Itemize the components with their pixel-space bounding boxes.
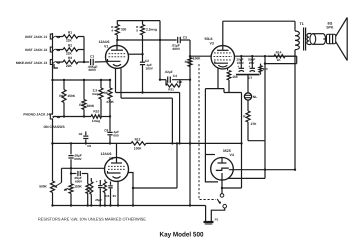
capacitor C4 .02uF xyxy=(165,70,178,83)
svg-text:+: + xyxy=(248,64,250,68)
svg-text:ON CHASSIS: ON CHASSIS xyxy=(44,125,66,129)
svg-text:V4: V4 xyxy=(230,153,234,157)
wire heater drop b xyxy=(171,98,173,144)
capacitor C3 .01uF xyxy=(172,36,191,52)
svg-text:C9: C9 xyxy=(87,144,91,148)
svg-text:INST JACK J1: INST JACK J1 xyxy=(25,35,47,39)
transformer T1 label xyxy=(300,22,304,26)
resistor R3 22K xyxy=(56,56,84,68)
svg-text:R7: R7 xyxy=(79,103,83,107)
svg-text:R12: R12 xyxy=(135,138,141,142)
input jack J4 xyxy=(23,112,65,128)
wire V4 cathode out xyxy=(229,169,296,171)
wire V2 detour xyxy=(133,142,178,188)
svg-text:1meg: 1meg xyxy=(92,119,100,123)
svg-text:R1: R1 xyxy=(68,30,72,34)
wire switch to plug xyxy=(206,206,225,222)
wire B+ top rail xyxy=(223,21,295,30)
tube V3 heater xyxy=(218,65,227,67)
transformer T1 secondary xyxy=(307,34,311,45)
resistor R10 1meg xyxy=(91,110,102,124)
svg-text:SPK: SPK xyxy=(326,26,334,30)
wire V4 box left xyxy=(204,89,206,155)
wire V4 heater out xyxy=(229,177,265,179)
tube V3 grids xyxy=(214,53,233,60)
svg-text:R3: R3 xyxy=(68,56,72,60)
resistor R5 2.2meg xyxy=(136,21,157,55)
capacitor C8 .1uF xyxy=(104,117,119,144)
svg-text:P1: P1 xyxy=(215,217,219,221)
svg-text:R9: R9 xyxy=(185,60,189,64)
switch SW1 xyxy=(217,194,226,208)
resistor R6 150K xyxy=(59,80,76,117)
svg-text:RESISTORS ARE ½W, 10% UNLESS M: RESISTORS ARE ½W, 10% UNLESS MARKED OTHE… xyxy=(38,217,146,222)
tube V2 12AU6 label xyxy=(101,152,114,160)
transformer T1 primary xyxy=(295,30,299,51)
wire vertical plate bus xyxy=(159,21,161,81)
plug P1 xyxy=(204,217,219,224)
svg-text:25µF: 25µF xyxy=(95,198,102,202)
svg-text:2.2meg: 2.2meg xyxy=(146,28,157,32)
svg-text:600V: 600V xyxy=(75,180,83,184)
tube V4 35Z5 label xyxy=(223,149,234,157)
svg-text:C1: C1 xyxy=(90,55,94,59)
wire V4 bottom xyxy=(221,173,242,189)
svg-text:6V: 6V xyxy=(113,194,117,198)
svg-text:600: 600 xyxy=(113,134,118,138)
speaker magnet xyxy=(327,34,336,43)
wire ground rail xyxy=(51,204,205,206)
capacitor C9 .02uF xyxy=(78,132,91,148)
svg-text:R2: R2 xyxy=(68,43,72,47)
resistor 220 screen xyxy=(259,64,268,75)
wire V1 screen xyxy=(129,53,144,55)
capacitor C6 25uF 6V xyxy=(95,182,116,206)
svg-text:C6: C6 xyxy=(105,194,109,198)
pilot lamp NL xyxy=(244,93,257,100)
svg-text:C4: C4 xyxy=(173,74,177,78)
note resistors xyxy=(38,217,146,222)
svg-text:330: 330 xyxy=(121,28,127,32)
capacitor C1 .005uF xyxy=(84,55,106,73)
tube V4 plate xyxy=(218,158,227,164)
wire rail C xyxy=(51,142,241,144)
wire heater rail b xyxy=(121,97,172,99)
svg-text:12AU6: 12AU6 xyxy=(101,152,112,156)
resistor R7 500K xyxy=(79,80,95,117)
svg-text:+: + xyxy=(237,64,239,68)
wire bus to AC xyxy=(189,143,191,206)
wire C4 row xyxy=(160,79,190,81)
wire heater to V4 xyxy=(205,89,241,93)
resistor R2 22K xyxy=(56,43,84,55)
wire jack sleeve bus xyxy=(53,33,59,114)
wire V2 leg xyxy=(117,181,119,206)
wire lamp down xyxy=(247,100,249,111)
svg-text:470K: 470K xyxy=(106,100,114,104)
wire V4 box right xyxy=(240,93,242,189)
wire V1 heater leg a xyxy=(115,68,117,93)
wire heater drop a xyxy=(178,93,180,145)
wire V3 heater leg xyxy=(217,68,219,89)
resistor R12 100K xyxy=(131,138,146,151)
wire heater rail a xyxy=(116,91,180,93)
wire plate V3 riser xyxy=(222,21,224,46)
tube V2 plate xyxy=(111,157,122,163)
svg-text:R10: R10 xyxy=(93,110,99,114)
svg-text:V3: V3 xyxy=(210,41,214,45)
capacitor C7b 50uF 25V xyxy=(248,56,255,71)
wire B+ rail 2 xyxy=(264,56,297,65)
tube V1 plate xyxy=(111,40,123,50)
svg-text:35Z5: 35Z5 xyxy=(223,149,231,153)
speaker cone xyxy=(336,18,348,61)
wire rail A xyxy=(53,115,112,117)
tube V3 cathode xyxy=(215,61,228,63)
capacitor C7a 20uF 150V xyxy=(236,56,244,71)
svg-text:NL: NL xyxy=(253,95,257,99)
svg-text:27K: 27K xyxy=(251,122,258,126)
svg-text:.02µF: .02µF xyxy=(165,70,173,74)
wire C7 to lamp xyxy=(247,75,249,93)
svg-text:MIKE-INST JACK J3: MIKE-INST JACK J3 xyxy=(16,61,47,65)
svg-text:1K: 1K xyxy=(277,58,282,62)
resistor R4 330 xyxy=(111,21,126,40)
resistor 470K xyxy=(106,80,114,117)
title Kay Model 500 xyxy=(160,231,204,238)
capacitor .05uF horis xyxy=(70,171,88,184)
resistor R14 1K xyxy=(268,50,297,62)
svg-text:PHONO JACK J4: PHONO JACK J4 xyxy=(23,112,50,116)
wire filter drop xyxy=(264,64,266,141)
tube V3 plate xyxy=(217,46,229,51)
wire rail B xyxy=(51,79,111,81)
wire bus J4 to pot xyxy=(51,119,53,181)
svg-text:.02: .02 xyxy=(78,132,83,136)
speaker 8ohm label xyxy=(326,21,334,29)
svg-text:C7: C7 xyxy=(248,76,252,80)
wire screen rail xyxy=(235,55,297,57)
wire V3 grid xyxy=(190,55,211,57)
tube V2 heater xyxy=(113,176,121,178)
tube V4 envelope xyxy=(211,158,234,181)
wire plate to C3 xyxy=(117,39,176,41)
wire input bus xyxy=(83,37,85,64)
resistor R8 3.3meg xyxy=(92,80,108,117)
tube V1 envelope xyxy=(106,45,129,68)
tube V1 grids xyxy=(109,54,126,57)
svg-text:R11: R11 xyxy=(168,88,174,92)
capacitor .05uF 600V xyxy=(68,143,82,168)
capacitor C7 common bar xyxy=(236,75,260,80)
tube V4 cathode xyxy=(216,168,229,170)
svg-text:220: 220 xyxy=(263,67,268,71)
transformer T1 core xyxy=(304,28,306,51)
capacitor electrolytic 10uF xyxy=(96,180,103,206)
B+ rail top-left xyxy=(117,20,160,22)
svg-text:22K: 22K xyxy=(66,39,73,43)
svg-text:200V: 200V xyxy=(146,67,154,71)
resistor 27K xyxy=(243,111,257,141)
wire V2 plate lead xyxy=(116,143,118,157)
tube V1 12AU6 label xyxy=(99,40,110,48)
resistor V2 cathode xyxy=(103,180,106,206)
wire V2 out right xyxy=(128,173,135,207)
resistor tone leg xyxy=(86,174,89,206)
wire grid bus V3 xyxy=(189,40,191,145)
svg-text:150K: 150K xyxy=(74,185,82,189)
svg-text:100K: 100K xyxy=(134,147,142,151)
svg-text:C8: C8 xyxy=(104,129,108,133)
svg-text:22K: 22K xyxy=(66,64,73,68)
tube V2 envelope xyxy=(105,157,129,181)
svg-text:T1: T1 xyxy=(300,22,304,26)
svg-text:600V: 600V xyxy=(89,68,97,72)
resistor bias xyxy=(90,178,93,206)
svg-text:500K: 500K xyxy=(39,185,47,189)
wire V1 heater leg b xyxy=(120,68,122,98)
svg-text:600V: 600V xyxy=(173,47,181,51)
tube V3 envelope xyxy=(211,46,234,69)
wire V4 box upper xyxy=(205,155,218,182)
node plate V1 xyxy=(116,39,118,41)
wire switch link dashed xyxy=(199,64,216,200)
input jack J1 xyxy=(25,33,60,39)
resistor R9 100K xyxy=(185,56,202,66)
wire V1 grid xyxy=(106,60,109,62)
tube V3 50L6 label xyxy=(205,37,214,45)
resistor R1 22K xyxy=(56,30,84,42)
capacitor C2 .1uF 200V xyxy=(140,54,154,92)
tube V1 heater xyxy=(113,64,121,66)
svg-text:C3: C3 xyxy=(183,36,187,40)
wire V4 to switch xyxy=(221,188,223,194)
speaker voice coil xyxy=(310,34,327,45)
svg-text:meg: meg xyxy=(92,92,99,96)
wire B+ to primary xyxy=(295,51,297,170)
potentiometer 150K xyxy=(64,168,83,205)
svg-text:47K: 47K xyxy=(177,80,183,84)
potentiometer 500K xyxy=(39,181,61,206)
tube V2 grids xyxy=(108,166,125,169)
wire tone node xyxy=(62,167,105,182)
svg-text:100K: 100K xyxy=(193,56,201,60)
resistor 150 cathode xyxy=(227,68,238,92)
svg-text:+: + xyxy=(96,180,98,184)
svg-text:150K: 150K xyxy=(67,94,75,98)
input jack J2 xyxy=(25,46,60,52)
wire 27K to V4 loop xyxy=(248,141,265,179)
svg-text:V1: V1 xyxy=(104,44,108,48)
svg-text:600V: 600V xyxy=(74,157,82,161)
input jack J3 xyxy=(16,59,60,65)
svg-text:Kay Model 500: Kay Model 500 xyxy=(160,231,204,238)
resistor R11 47K xyxy=(166,80,183,92)
tube V2 cathode xyxy=(108,171,121,173)
svg-text:R14: R14 xyxy=(276,50,282,54)
svg-text:R6: R6 xyxy=(59,94,63,98)
tube V1 cathode xyxy=(108,59,121,61)
svg-text:150: 150 xyxy=(232,75,238,79)
svg-text:INST JACK J2: INST JACK J2 xyxy=(25,48,47,52)
svg-text:500K: 500K xyxy=(87,104,95,108)
